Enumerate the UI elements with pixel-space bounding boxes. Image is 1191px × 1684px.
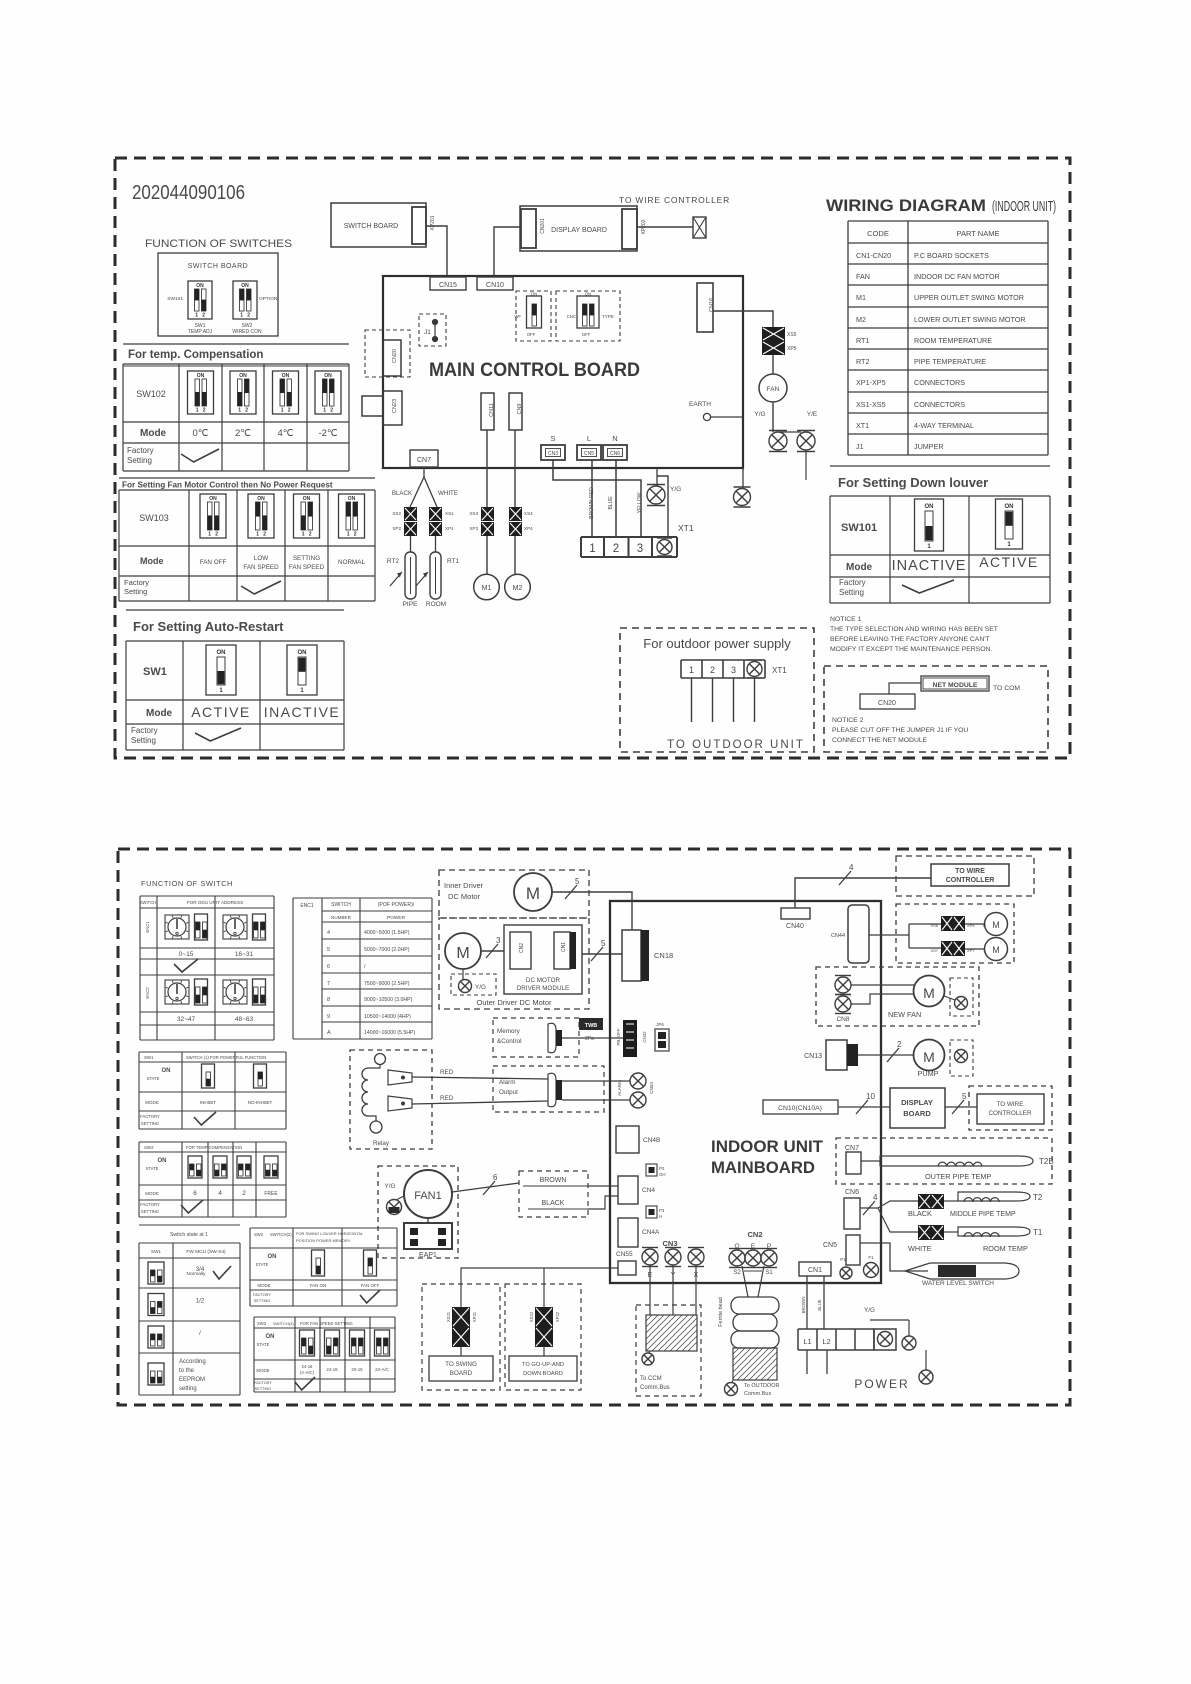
svg-text:To CCM: To CCM: [640, 1376, 662, 1382]
svg-text:CONTROLLER: CONTROLLER: [946, 877, 995, 884]
svg-text:ROOM TEMPERATURE: ROOM TEMPERATURE: [914, 336, 992, 345]
svg-text:202044090106: 202044090106: [132, 182, 245, 204]
connector XS7 XP7: [941, 941, 953, 956]
svg-text:TO WIRE: TO WIRE: [955, 868, 985, 875]
dip SW103 fan off: [200, 494, 226, 538]
connector CN4B: [616, 1126, 639, 1153]
svg-text:PLEASE CUT OFF THE JUMPER J1 I: PLEASE CUT OFF THE JUMPER J1 IF YOU: [832, 727, 968, 734]
svg-text:7: 7: [327, 981, 330, 987]
svg-text:CN18: CN18: [654, 951, 673, 960]
alarm terminals CN33: [630, 1073, 646, 1089]
notice 2 dashed box: [824, 666, 1048, 752]
connector CN16: [697, 283, 713, 332]
wire CN40 to wire controller: [795, 878, 931, 908]
svg-text:S2: S2: [733, 1270, 741, 1276]
wire CN13 to pump: [858, 1054, 913, 1056]
svg-text:3: 3: [731, 665, 736, 675]
dip fw mcu row 3: [148, 1326, 164, 1348]
svg-text:Factory: Factory: [131, 726, 158, 735]
svg-text:M2: M2: [513, 585, 523, 592]
svg-text:MODE: MODE: [257, 1283, 270, 1288]
svg-text:SW2: SW2: [144, 1145, 154, 1150]
svg-text:XT1: XT1: [678, 523, 694, 533]
table for setting auto-restart: [126, 609, 344, 611]
connector XP3: [481, 522, 494, 536]
svg-text:FAN SPEED: FAN SPEED: [243, 564, 279, 571]
svg-text:L2: L2: [822, 1337, 830, 1346]
wire swing to CN55: [461, 1268, 618, 1307]
svg-text:2Pa: 2Pa: [585, 1036, 594, 1042]
connector CN23: [383, 391, 402, 425]
svg-text:UPPER OUTLET SWING MOTOR: UPPER OUTLET SWING MOTOR: [914, 293, 1024, 302]
connector XP4: [509, 522, 522, 536]
svg-text:Factory: Factory: [839, 578, 866, 587]
indoor unit mainboard outline: [610, 901, 881, 1283]
svg-text:For temp. Compensation: For temp. Compensation: [128, 349, 263, 361]
svg-text:MAINBOARD: MAINBOARD: [711, 1158, 815, 1177]
svg-text:2: 2: [710, 665, 715, 675]
svg-text:SW1: SW1: [143, 666, 167, 678]
wires to power: [806, 1350, 808, 1374]
svg-text:SETTING: SETTING: [255, 1387, 272, 1391]
svg-text:Y/E: Y/E: [807, 411, 818, 418]
svg-text:XS4: XS4: [524, 511, 533, 516]
svg-text:LOWER OUTLET SWING MOTOR: LOWER OUTLET SWING MOTOR: [914, 315, 1026, 324]
svg-text:10500~14000 (4HP): 10500~14000 (4HP): [364, 1014, 411, 1020]
tiny connector P2: [646, 1164, 657, 1176]
svg-text:8: 8: [327, 997, 330, 1003]
svg-text:Setting: Setting: [124, 587, 147, 596]
sw1 inhibit table: [139, 1051, 286, 1053]
svg-text:POWER: POWER: [387, 915, 406, 921]
wire go-up to bus: [543, 1268, 545, 1307]
svg-text:Y/G: Y/G: [385, 1183, 396, 1190]
connector CN8 terminals: [835, 977, 851, 993]
wire CN5 to XT1: [591, 460, 593, 537]
svg-text:WHITE: WHITE: [438, 490, 458, 497]
svg-text:1: 1: [323, 408, 326, 414]
svg-text:STATE: STATE: [257, 1342, 270, 1347]
wire brown to CN4: [588, 1185, 618, 1187]
svg-text:CN16: CN16: [709, 298, 715, 312]
svg-text:2: 2: [354, 532, 357, 538]
svg-text:CN23: CN23: [392, 399, 398, 413]
svg-text:ON: ON: [531, 292, 537, 297]
svg-text:SW1: SW1: [151, 1249, 161, 1254]
sw2 temp compensation table: [139, 1141, 286, 1143]
svg-text:J1: J1: [856, 442, 864, 451]
factory check temp comp: [181, 449, 219, 462]
svg-text:M: M: [923, 1049, 935, 1065]
connector CN20 notice: [860, 694, 915, 709]
svg-text:CN4B: CN4B: [643, 1137, 660, 1144]
svg-text:INACTIVE: INACTIVE: [892, 558, 967, 574]
svg-text:M2: M2: [856, 315, 866, 324]
svg-text:DOWN BOARD: DOWN BOARD: [523, 1371, 563, 1377]
wire CN8 to new fan motor: [851, 984, 914, 986]
main control board outline: [383, 276, 743, 468]
ground fan1: [396, 1196, 404, 1200]
svg-text:(INDOOR UNIT): (INDOOR UNIT): [992, 199, 1056, 215]
svg-text:XP201: XP201: [430, 215, 436, 230]
svg-text:M: M: [992, 920, 1000, 930]
svg-text:CN3: CN3: [548, 451, 558, 457]
svg-text:SW3: SW3: [257, 1321, 267, 1326]
svg-text:SWITCH BOARD: SWITCH BOARD: [188, 263, 248, 270]
svg-text:4: 4: [327, 930, 330, 936]
svg-text:SETTING: SETTING: [141, 1121, 159, 1126]
svg-text:TO WIRE: TO WIRE: [997, 1101, 1024, 1108]
svg-text:Factory: Factory: [124, 578, 149, 587]
wire CN3 to XT1: [553, 460, 641, 537]
svg-text:GH: GH: [659, 1172, 666, 1177]
inner driver dashed box: [439, 870, 589, 918]
svg-text:NOTICE 1: NOTICE 1: [830, 616, 862, 623]
svg-text:PIPE: PIPE: [403, 601, 418, 608]
svg-text:7500~9000 (2.5HP): 7500~9000 (2.5HP): [364, 981, 410, 987]
svg-text:DC Motor: DC Motor: [448, 892, 481, 901]
svg-text:BLACK: BLACK: [392, 490, 413, 497]
svg-text:RED: RED: [440, 1069, 454, 1076]
svg-text:NORMAL: NORMAL: [338, 559, 365, 566]
svg-text:2: 2: [288, 408, 291, 414]
svg-text:T1: T1: [1033, 1228, 1043, 1237]
svg-text:1: 1: [281, 408, 284, 414]
outer driver dashed box: [439, 918, 589, 1009]
svg-text:TWB: TWB: [585, 1023, 598, 1029]
svg-text:FW MCU (SW-S4): FW MCU (SW-S4): [186, 1249, 226, 1255]
svg-text:FAN SPEED: FAN SPEED: [289, 564, 325, 571]
svg-text:ON: ON: [162, 1068, 171, 1074]
svg-text:SWITCH(3): SWITCH(3): [273, 1321, 294, 1326]
connector XP5: [762, 341, 785, 355]
dip SW102 4C: [273, 371, 299, 414]
svg-text:FUNCTION OF SWITCH: FUNCTION OF SWITCH: [141, 879, 233, 888]
svg-text:DRIVER MODULE: DRIVER MODULE: [517, 985, 569, 992]
svg-text:ACTIVE: ACTIVE: [191, 704, 251, 720]
svg-text:FREE: FREE: [264, 1191, 278, 1197]
toggle no-inhibit: [254, 1064, 267, 1088]
svg-text:FOR ODU UNIT ADDRESS: FOR ODU UNIT ADDRESS: [187, 900, 243, 905]
connector XS22 XP22: [535, 1307, 553, 1327]
svg-text:CN1: CN1: [808, 1267, 822, 1274]
swing motor M upper: [965, 923, 985, 925]
svg-text:ON: ON: [257, 496, 265, 502]
svg-text:ENC1: ENC1: [300, 903, 314, 909]
svg-text:TO GO-UP-AND: TO GO-UP-AND: [522, 1362, 564, 1368]
svg-text:FAN OFF: FAN OFF: [361, 1283, 380, 1288]
svg-text:BLACK: BLACK: [908, 1209, 932, 1218]
svg-text:SWITCH(2): SWITCH(2): [270, 1232, 292, 1237]
svg-text:For outdoor power supply: For outdoor power supply: [643, 636, 791, 651]
svg-text:4-WAY TERMINAL: 4-WAY TERMINAL: [914, 421, 974, 430]
connector XP2: [404, 522, 417, 536]
swing motor dashed box: [896, 904, 1014, 963]
svg-text:ON: ON: [241, 283, 249, 289]
svg-text:SWITCH (1) FOR POWERFUL FUNCTI: SWITCH (1) FOR POWERFUL FUNCTION: [186, 1055, 266, 1060]
wires CN7 to thermistors: [423, 467, 425, 477]
svg-text:FACTORY: FACTORY: [140, 1202, 160, 1207]
swing motor M lower: [965, 948, 985, 950]
svg-text:XS5: XS5: [787, 332, 797, 338]
svg-text:22-A/C: 22-A/C: [375, 1367, 389, 1372]
svg-text:ON: ON: [1005, 504, 1014, 510]
wire black to CN4: [588, 1196, 618, 1209]
svg-text:4000~5000 (1.5HP): 4000~5000 (1.5HP): [364, 930, 410, 936]
svg-text:H: H: [659, 1214, 662, 1219]
svg-text:24-18: 24-18: [302, 1364, 313, 1369]
display board box: [890, 1088, 945, 1128]
svg-text:ON: ON: [266, 1334, 275, 1340]
svg-text:CODE: CODE: [867, 229, 889, 238]
dip SW102 -2C: [315, 371, 341, 414]
svg-text:Inner Driver: Inner Driver: [444, 881, 484, 890]
svg-text:FAN1: FAN1: [414, 1190, 442, 1202]
svg-text:to the: to the: [179, 1368, 195, 1374]
svg-text:SW101: SW101: [167, 296, 183, 302]
svg-text:For Setting Down louver: For Setting Down louver: [838, 475, 988, 490]
svg-text:6: 6: [493, 1173, 498, 1182]
svg-text:XT1: XT1: [772, 666, 787, 675]
motor M inner: [514, 873, 552, 911]
svg-text:4: 4: [218, 1190, 222, 1197]
svg-text:P1: P1: [840, 1257, 846, 1262]
factory check auto-restart: [195, 728, 241, 741]
svg-text:CN8: CN8: [836, 1016, 849, 1023]
svg-text:WF: WF: [514, 314, 521, 319]
svg-text:9: 9: [327, 1014, 330, 1020]
svg-text:ON: ON: [268, 1254, 277, 1260]
svg-text:(A-A/C): (A-A/C): [300, 1370, 315, 1375]
svg-text:4℃: 4℃: [278, 428, 294, 439]
svg-text:6: 6: [327, 964, 330, 970]
svg-text:XS1-XS5: XS1-XS5: [856, 400, 886, 409]
svg-text:S: S: [550, 434, 555, 443]
svg-text:M: M: [992, 945, 1000, 955]
svg-text:CN10(CN10A): CN10(CN10A): [778, 1105, 822, 1112]
svg-text:DISPLAY BOARD: DISPLAY BOARD: [551, 227, 607, 234]
connector XP202: [622, 209, 637, 249]
brown black dashed box: [519, 1171, 588, 1217]
sw2 louver table: [250, 1227, 397, 1229]
svg-text:CN7: CN7: [845, 1145, 859, 1152]
rotary switch ENC2 b: [223, 980, 247, 1004]
jumper J1 dashed box: [419, 314, 446, 346]
svg-text:1: 1: [347, 532, 350, 538]
svg-text:P.C BOARD SOCKETS: P.C BOARD SOCKETS: [914, 251, 989, 260]
svg-text:CN2: CN2: [519, 943, 525, 953]
svg-text:FUNCTION OF SWITCHES: FUNCTION OF SWITCHES: [145, 238, 292, 250]
to go-up-and-down board box: [509, 1356, 577, 1381]
connector CN4: [618, 1176, 638, 1204]
connector PB-OFF: [623, 1020, 637, 1057]
power rating table: [293, 897, 432, 899]
svg-text:POSITION POWER MEMORY: POSITION POWER MEMORY: [296, 1238, 351, 1243]
factory check down louver: [902, 580, 954, 593]
svg-text:PART NAME: PART NAME: [957, 229, 1000, 238]
connector CN7: [410, 450, 438, 467]
connector CN13: [826, 1040, 847, 1070]
terminal block XT1 outdoor: [681, 659, 765, 661]
connector CN11: [481, 393, 494, 430]
svg-text:1: 1: [589, 543, 595, 555]
svg-text:XS7: XS7: [930, 948, 938, 953]
svg-text:FAN ON: FAN ON: [310, 1283, 326, 1288]
svg-text:CN9: CN9: [517, 403, 523, 414]
svg-text:1: 1: [195, 313, 198, 319]
connector CN10(CN10A): [763, 1100, 838, 1114]
svg-text:Normally: Normally: [187, 1271, 207, 1277]
svg-text:S1: S1: [765, 1270, 773, 1276]
svg-text:XS22: XS22: [529, 1311, 534, 1322]
svg-text:NO-INHIBIT: NO-INHIBIT: [248, 1100, 273, 1105]
dip temp comp 2: [213, 1156, 227, 1178]
svg-text:M: M: [923, 985, 935, 1001]
svg-text:SETTING: SETTING: [254, 1299, 271, 1303]
svg-text:BLUE: BLUE: [817, 1299, 822, 1311]
svg-text:Setting: Setting: [127, 456, 152, 465]
check rotary: [174, 959, 198, 972]
svg-text:CN201: CN201: [540, 218, 546, 234]
TWB label: [579, 1018, 603, 1030]
svg-text:POWER: POWER: [854, 1377, 909, 1391]
svg-text:Relay: Relay: [373, 1140, 390, 1147]
svg-text:L: L: [587, 434, 591, 443]
svg-text:CN20: CN20: [878, 700, 896, 707]
svg-text:BROWN: BROWN: [540, 1177, 567, 1184]
svg-text:To OUTDOOR: To OUTDOOR: [744, 1383, 779, 1389]
svg-text:CN6: CN6: [845, 1189, 859, 1196]
motor pump: [914, 1040, 945, 1071]
svg-text:CN4: CN4: [642, 1187, 655, 1194]
dip fw mcu row 4: [148, 1363, 164, 1385]
svg-text:CN13: CN13: [804, 1053, 822, 1060]
svg-text:ROOM TEMP: ROOM TEMP: [983, 1244, 1028, 1253]
svg-text:CN5: CN5: [823, 1242, 837, 1249]
wire XP3 to M1: [486, 536, 488, 574]
relay contact 2: [388, 1096, 412, 1111]
svg-text:For Setting Auto-Restart: For Setting Auto-Restart: [133, 619, 284, 634]
memory plug: [548, 1023, 556, 1053]
svg-text:OFF: OFF: [527, 332, 536, 337]
connector CN4A: [618, 1218, 638, 1247]
svg-text:1: 1: [240, 313, 243, 319]
svg-text:Y/G: Y/G: [754, 411, 765, 418]
svg-text:XP4: XP4: [524, 526, 533, 531]
svg-text:EEPROM: EEPROM: [179, 1377, 205, 1383]
svg-text:ON: ON: [298, 650, 307, 656]
toggle inhibit: [202, 1064, 215, 1088]
svg-text:SW102: SW102: [136, 389, 166, 399]
bottom panel dashed border: [118, 849, 1070, 1405]
svg-text:XT1: XT1: [856, 421, 869, 430]
type select dashed box 1: [516, 291, 551, 341]
ground screw Y/G under board: [656, 468, 658, 486]
svg-text:48~63: 48~63: [235, 1016, 254, 1023]
wire XP4 to M2: [514, 536, 516, 574]
svg-text:XS2: XS2: [392, 511, 401, 516]
svg-text:CONNECTORS: CONNECTORS: [914, 400, 965, 409]
connector pair black: [918, 1194, 931, 1209]
connector EAP1: [427, 1218, 429, 1223]
new fan dashed box: [816, 967, 979, 1026]
svg-text:CN15: CN15: [439, 282, 457, 289]
svg-text:FOR TEMP COMPENSATION: FOR TEMP COMPENSATION: [186, 1145, 242, 1150]
svg-text:Setting: Setting: [131, 736, 156, 745]
svg-text:RT2: RT2: [387, 558, 400, 565]
switch board legend box: [158, 253, 278, 336]
memory control dashed box: [493, 1018, 579, 1057]
wire CN5 to water level switch: [860, 1243, 928, 1271]
svg-text:JUMPER: JUMPER: [914, 442, 944, 451]
relay contact 1: [388, 1070, 412, 1085]
motor new fan: [914, 976, 945, 1007]
svg-text:CN44: CN44: [831, 933, 845, 939]
ground screw at board corner: [742, 468, 744, 488]
svg-text:FOR FAN SPEED SETTING: FOR FAN SPEED SETTING: [300, 1321, 353, 1326]
svg-text:2: 2: [203, 408, 206, 414]
svg-text:J1: J1: [424, 329, 431, 336]
svg-text:Ferrite bead: Ferrite bead: [718, 1297, 724, 1327]
wire CN9 to XS4: [514, 430, 516, 507]
svg-text:CN1: CN1: [561, 942, 567, 952]
connector XS1: [429, 507, 442, 521]
svg-text:PIPE TEMPERATURE: PIPE TEMPERATURE: [914, 357, 986, 366]
svg-text:Switch state at 1: Switch state at 1: [170, 1232, 208, 1238]
svg-text:WIRED CON: WIRED CON: [232, 329, 262, 335]
svg-text:RED: RED: [440, 1095, 454, 1102]
socket left of CN23: [362, 396, 383, 416]
toggle SW1 inactive: [287, 645, 317, 695]
svg-text:STATE: STATE: [147, 1076, 160, 1081]
svg-text:SETTING: SETTING: [293, 555, 320, 562]
svg-text:ON: ON: [197, 373, 205, 379]
svg-text:1: 1: [302, 532, 305, 538]
svg-text:BOARD: BOARD: [450, 1370, 473, 1377]
connector CN18: [622, 930, 641, 981]
dip fw mcu row 1: [148, 1262, 164, 1284]
connector CN44: [848, 905, 869, 963]
connector XS6 XP6: [941, 916, 953, 931]
wire to RT1: [435, 536, 437, 552]
connector CN201: [521, 209, 536, 248]
svg-text:STATE: STATE: [146, 1166, 159, 1171]
connector CN1: [799, 1262, 831, 1276]
parts code table: [848, 220, 1048, 222]
svg-text:5: 5: [601, 939, 606, 948]
svg-text:EARTH: EARTH: [689, 401, 711, 408]
svg-text:XP1: XP1: [445, 526, 454, 531]
svg-text:ACTIVE: ACTIVE: [979, 554, 1039, 570]
svg-text:WIRING DIAGRAM: WIRING DIAGRAM: [826, 196, 986, 215]
svg-text:Mode: Mode: [846, 562, 873, 573]
svg-text:Comm.Bus: Comm.Bus: [744, 1391, 771, 1397]
svg-text:6: 6: [193, 1190, 197, 1197]
sw fw mcu table: [139, 1224, 240, 1226]
legend DIP switch SW101: [188, 281, 212, 319]
svg-text:1: 1: [238, 408, 241, 414]
svg-text:ON: ON: [217, 650, 226, 656]
svg-text:CONNECTORS: CONNECTORS: [914, 378, 965, 387]
svg-text:XP1-XP5: XP1-XP5: [856, 378, 886, 387]
svg-text:ON: ON: [348, 496, 356, 502]
wire CN20 to net module: [889, 683, 921, 694]
svg-text:14000~16000 (5.5HP): 14000~16000 (5.5HP): [364, 1030, 415, 1036]
connector pair white: [918, 1225, 931, 1240]
to go-up-and-down dashed box: [505, 1284, 581, 1390]
wire CN6 to XT1: [615, 460, 617, 537]
svg-text:TO SWING: TO SWING: [445, 1361, 477, 1368]
